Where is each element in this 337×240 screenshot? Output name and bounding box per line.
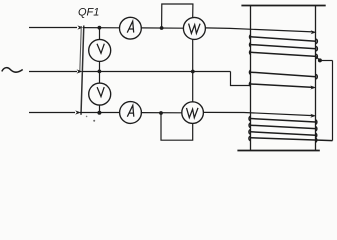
- tap connection from top group: [316, 56, 320, 60]
- W1 voltage lead down to phase2: [192, 39, 194, 102]
- arrow on phase3 at QF1: [75, 110, 81, 114]
- wattmeter W2 series loop: [161, 113, 193, 140]
- wattmeter W2: [182, 102, 204, 124]
- node phase2 / wattmeter voltage leads: [191, 70, 195, 74]
- voltmeter V2 stub down: [99, 105, 101, 112]
- winding top group turn 2: [251, 45, 316, 49]
- ammeter A2: [120, 102, 142, 124]
- wrap bumps right rail top group: [316, 39, 317, 59]
- winding bottom group turn 3: [250, 132, 315, 135]
- winding top group turn 1: [251, 37, 316, 42]
- node phase3 voltmeter: [97, 111, 101, 115]
- tap wire down right side: [332, 61, 334, 141]
- wire phase3 to ammeter: [80, 112, 120, 114]
- wattmeter W1 series loop: [162, 4, 193, 28]
- AC source symbol ~: [2, 68, 23, 72]
- scan speckle: [93, 120, 95, 122]
- winding bottom group last turn to tap: [250, 138, 332, 141]
- arrow middle feed: [310, 86, 316, 90]
- wire phase2 left segment: [29, 71, 77, 73]
- wire phase1 left segment: [29, 27, 77, 29]
- arrow on phase2 at QF1: [77, 69, 83, 73]
- wire phase1 to ammeter: [83, 27, 120, 29]
- voltmeter V1 stub up: [99, 28, 101, 40]
- core bottom bar: [237, 150, 319, 152]
- winding left rail: [250, 6, 252, 151]
- voltmeter V2 stub up: [99, 72, 101, 84]
- arrow on phase1 at QF1: [77, 25, 83, 29]
- tap node: [318, 58, 322, 62]
- tap wire right: [320, 60, 333, 62]
- wrap bump right rail middle group: [316, 74, 317, 79]
- winding bottom group turn 1: [250, 119, 315, 123]
- voltmeter V1 stub down: [99, 61, 101, 71]
- wire phase1 W1 to winding: [206, 28, 314, 32]
- scan speckle: [86, 116, 88, 118]
- wire phase2 step down to winding: [231, 72, 251, 86]
- wrap bumps left rail middle group: [249, 70, 250, 86]
- wire phase1 ammeter to wattmeter: [141, 27, 183, 29]
- wire phase3 ammeter to wattmeter: [141, 112, 182, 114]
- winding middle group feed turn: [251, 84, 313, 87]
- winding bottom group turn 2: [250, 125, 315, 128]
- node at W2 current loop: [159, 111, 163, 115]
- circuit breaker QF1 bar: [81, 26, 84, 115]
- winding top group turn 3: [251, 52, 316, 56]
- core top bar: [241, 5, 325, 7]
- wrap bumps left rail top group: [250, 35, 251, 55]
- circuit breaker QF1 second bar (upper): [80, 26, 82, 72]
- voltmeter V1: [89, 39, 111, 61]
- node on phase1 for voltmeter V1: [98, 26, 102, 30]
- winding right rail: [315, 6, 317, 151]
- svg-text:QF1: QF1: [78, 7, 99, 19]
- wrap bumps right rail bottom group: [315, 120, 316, 143]
- arrow phase3 into winding: [310, 114, 316, 118]
- voltmeter V2: [89, 83, 111, 105]
- winding middle group turn 1: [251, 72, 316, 77]
- node phase2 / voltmeters: [98, 70, 102, 74]
- node at W1 current loop: [160, 26, 164, 30]
- arrow phase1 into winding: [311, 30, 317, 34]
- wattmeter W1: [183, 17, 205, 39]
- wire phase3 left segment: [29, 112, 75, 114]
- wire phase2 across: [82, 71, 231, 73]
- wire phase3 W2 to winding: [203, 112, 313, 115]
- ammeter A1: [119, 17, 141, 39]
- wrap bumps left rail bottom group: [249, 116, 250, 140]
